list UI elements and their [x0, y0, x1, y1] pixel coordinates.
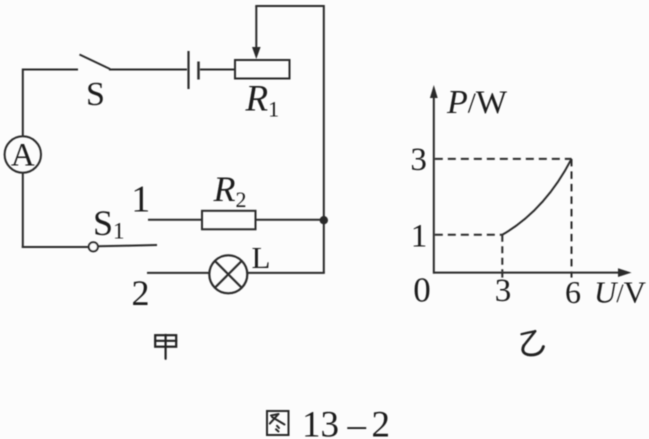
wire left vertical lower	[22, 173, 24, 248]
wire top-left horizontal	[22, 69, 78, 71]
switch S1 pivot terminal	[89, 242, 98, 251]
wire right vertical	[323, 5, 325, 273]
svg-text:1: 1	[131, 179, 150, 221]
wire top horizontal	[255, 5, 324, 7]
svg-text:S: S	[86, 76, 105, 113]
junction node	[320, 216, 328, 224]
battery short plate	[197, 62, 200, 80]
switch S1 lever	[98, 245, 157, 246]
battery long plate	[187, 51, 189, 89]
wire R2 to junction	[256, 219, 325, 221]
svg-text:6: 6	[565, 274, 581, 310]
wire left vertical upper	[22, 69, 24, 137]
label jia (甲)	[155, 335, 176, 359]
tick U=3	[501, 273, 503, 278]
svg-text:3: 3	[495, 273, 512, 309]
resistor R2	[202, 211, 256, 230]
U axis arrowhead	[618, 268, 632, 277]
resistor R1 (rheostat box)	[235, 60, 290, 79]
wire node 2 to lamp	[147, 272, 210, 274]
ammeter A	[5, 136, 41, 173]
dashed line P=1	[435, 234, 503, 236]
dashed line U=6	[571, 159, 573, 272]
svg-text:1: 1	[411, 219, 428, 255]
wire lamp to right vertical	[247, 272, 324, 274]
wire switch to battery	[109, 69, 187, 71]
graph U axis	[433, 272, 620, 274]
wire battery to R1	[200, 69, 235, 71]
switch S	[80, 55, 111, 70]
svg-text:0: 0	[413, 271, 431, 310]
graph P axis	[433, 96, 435, 274]
svg-text:U/V: U/V	[594, 275, 647, 310]
svg-text:P/W: P/W	[446, 84, 508, 121]
svg-text:3: 3	[410, 142, 427, 178]
rheostat wiper arrow	[252, 6, 261, 59]
wire node 1 to R2	[148, 219, 202, 221]
P axis arrowhead	[430, 85, 438, 98]
svg-text:A: A	[11, 138, 35, 174]
label yi (乙)	[522, 331, 544, 355]
dashed line U=3	[501, 235, 503, 272]
svg-text:L: L	[252, 240, 271, 275]
wire bottom-left horizontal	[22, 246, 89, 248]
dashed line P=3	[435, 158, 572, 160]
lamp L	[209, 255, 247, 293]
caption tu (图)	[267, 411, 289, 435]
tick U=6	[571, 273, 573, 278]
svg-text:2: 2	[132, 273, 150, 313]
P-U curve	[502, 159, 571, 235]
